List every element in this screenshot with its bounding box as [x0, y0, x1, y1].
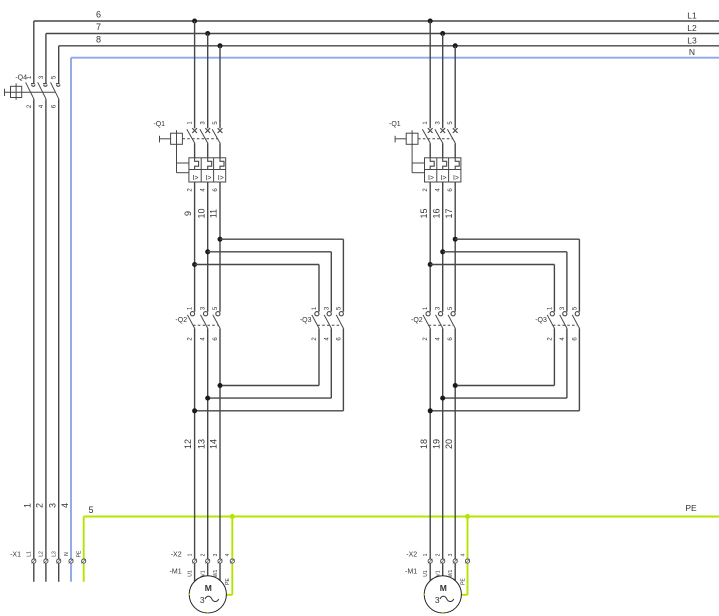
svg-text:I>: I> — [440, 175, 446, 182]
svg-text:-Q4: -Q4 — [15, 75, 27, 82]
svg-text:8: 8 — [96, 34, 101, 44]
svg-text:7: 7 — [96, 22, 101, 32]
svg-text:-Q2: -Q2 — [411, 317, 423, 324]
svg-text:2: 2 — [201, 553, 207, 556]
svg-text:17: 17 — [444, 208, 454, 218]
svg-text:I>: I> — [453, 175, 459, 182]
svg-text:PE: PE — [77, 550, 83, 557]
svg-text:3: 3 — [448, 553, 454, 556]
svg-text:20: 20 — [444, 439, 454, 449]
svg-text:11: 11 — [209, 209, 219, 218]
svg-text:-X1: -X1 — [10, 552, 21, 559]
svg-text:-Q1: -Q1 — [153, 121, 165, 128]
svg-text:4: 4 — [60, 503, 70, 508]
svg-text:1: 1 — [423, 553, 429, 556]
svg-text:15: 15 — [419, 208, 429, 218]
svg-text:-M1: -M1 — [170, 569, 182, 576]
svg-text:L2: L2 — [687, 23, 697, 33]
svg-text:I>: I> — [192, 175, 198, 182]
svg-text:N: N — [689, 47, 695, 57]
svg-text:3: 3 — [213, 553, 219, 556]
svg-text:PE: PE — [460, 578, 466, 585]
svg-text:3: 3 — [200, 595, 205, 605]
svg-text:N: N — [64, 552, 70, 556]
svg-text:13: 13 — [196, 439, 206, 449]
svg-text:W1: W1 — [213, 570, 219, 578]
svg-text:L2: L2 — [39, 551, 45, 557]
svg-text:PE: PE — [225, 578, 231, 585]
svg-text:10: 10 — [196, 208, 206, 218]
svg-text:-X2: -X2 — [406, 552, 417, 559]
svg-text:U1: U1 — [423, 570, 429, 577]
svg-text:18: 18 — [419, 439, 429, 449]
svg-text:5: 5 — [88, 505, 93, 515]
svg-text:14: 14 — [209, 439, 219, 449]
svg-text:PE: PE — [685, 503, 697, 513]
svg-text:M: M — [440, 583, 447, 593]
svg-text:L1: L1 — [27, 551, 33, 557]
svg-text:-Q3: -Q3 — [300, 317, 312, 324]
svg-text:-Q1: -Q1 — [389, 121, 401, 128]
svg-text:2: 2 — [35, 503, 45, 508]
svg-text:L3: L3 — [687, 35, 697, 45]
svg-text:-Q3: -Q3 — [535, 317, 547, 324]
svg-text:1: 1 — [23, 503, 33, 508]
svg-text:L3: L3 — [52, 551, 58, 557]
svg-text:6: 6 — [96, 10, 101, 20]
svg-text:M: M — [205, 583, 212, 593]
svg-text:I>: I> — [428, 175, 434, 182]
svg-text:2: 2 — [436, 553, 442, 556]
svg-text:1: 1 — [187, 553, 193, 556]
svg-text:9: 9 — [183, 211, 193, 216]
svg-text:3: 3 — [435, 595, 440, 605]
svg-text:-M1: -M1 — [405, 569, 417, 576]
svg-text:-X2: -X2 — [171, 552, 182, 559]
svg-text:12: 12 — [183, 439, 193, 449]
svg-text:I>: I> — [218, 175, 224, 182]
svg-text:19: 19 — [431, 439, 441, 449]
svg-text:16: 16 — [431, 208, 441, 218]
svg-text:-Q2: -Q2 — [175, 317, 187, 324]
svg-text:4: 4 — [460, 553, 466, 556]
svg-text:U1: U1 — [187, 570, 193, 577]
svg-text:L1: L1 — [687, 11, 697, 21]
svg-text:W1: W1 — [448, 570, 454, 578]
svg-text:I>: I> — [205, 175, 211, 182]
svg-text:3: 3 — [48, 503, 58, 508]
svg-text:4: 4 — [225, 553, 231, 556]
